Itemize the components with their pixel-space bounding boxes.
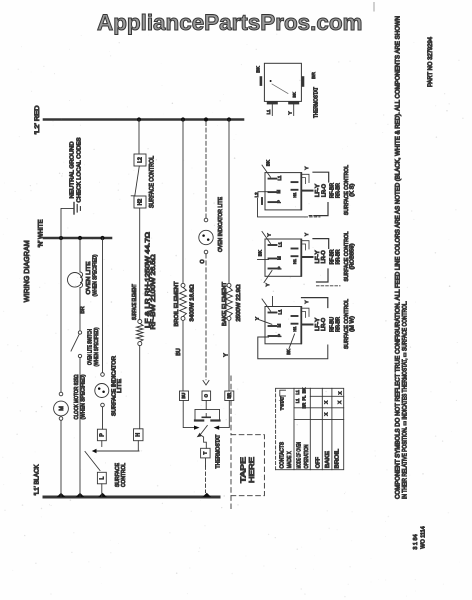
svg-text:NEUTRAL GROUND: NEUTRAL GROUND [69, 142, 75, 199]
svg-text:BROIL ELEMENT: BROIL ELEMENT [174, 281, 180, 327]
svg-text:Y: Y [254, 317, 259, 320]
svg-text:MODE OF OVEN: MODE OF OVEN [296, 442, 302, 469]
svg-text:H1: H1 [292, 326, 297, 332]
svg-text:BU: BU [181, 393, 186, 399]
svg-text:RR-BR: RR-BR [335, 249, 341, 264]
svg-text:M: M [276, 189, 281, 193]
svg-text:Y: Y [267, 233, 272, 236]
svg-text:SURFACE CONTROL: SURFACE CONTROL [149, 155, 155, 208]
svg-text:H1: H1 [292, 192, 297, 198]
svg-text:BK: BK [257, 250, 262, 256]
svg-text:Y: Y [223, 353, 229, 357]
svg-text:L1: L1 [277, 175, 282, 180]
svg-text:LR-O: LR-O [321, 184, 327, 197]
svg-text:Y: Y [304, 233, 309, 236]
svg-text:OVEN INDICATOR LITE: OVEN INDICATOR LITE [218, 197, 224, 252]
svg-text:BR: BR [80, 306, 86, 313]
svg-text:Y: Y [288, 111, 293, 114]
svg-text:BK: BK [292, 92, 297, 98]
svg-text:MADE X: MADE X [287, 451, 293, 468]
svg-text:T: T [203, 452, 208, 455]
svg-text:L1: L1 [295, 398, 300, 403]
svg-text:BR: BR [301, 403, 306, 409]
svg-text:LITE: LITE [117, 379, 123, 393]
svg-text:‘N’ WHITE: ‘N’ WHITE [38, 220, 44, 248]
svg-text:BAKE ELEMENT: BAKE ELEMENT [222, 281, 228, 326]
svg-text:(M W): (M W) [350, 316, 356, 332]
svg-text:RR-BR: RR-BR [335, 183, 341, 198]
svg-text:L: L [99, 476, 105, 479]
svg-text:OVEN LITE: OVEN LITE [86, 261, 92, 294]
svg-text:BK: BK [286, 349, 291, 355]
svg-text:WO 1114: WO 1114 [420, 526, 426, 548]
svg-text:M: M [59, 406, 65, 411]
svg-text:Y: Y [265, 283, 270, 286]
svg-text:COMPONENT SYMBOLS DO NOT REFLE: COMPONENT SYMBOLS DO NOT REFLECT TRUE CO… [395, 16, 401, 499]
svg-text:OPERATION: OPERATION [304, 445, 310, 469]
svg-text:Y: Y [304, 300, 309, 303]
svg-text:RF-BW 2100W 26.5Ω: RF-BW 2100W 26.5Ω [151, 254, 157, 330]
svg-text:LF-Y: LF-Y [315, 183, 321, 197]
svg-text:H: H [136, 433, 142, 437]
svg-text:(ROB859): (ROB859) [350, 243, 356, 269]
svg-text:CONTROL: CONTROL [121, 463, 127, 487]
svg-text:RR-BR: RR-BR [335, 317, 341, 332]
svg-text:CLOCK MOTOR 825Ω: CLOCK MOTOR 825Ω [74, 375, 80, 420]
svg-text:CONTACTS: CONTACTS [280, 442, 286, 469]
svg-text:3400W 16.6Ω: 3400W 16.6Ω [189, 285, 195, 322]
svg-text:LF-Y: LF-Y [315, 317, 321, 331]
svg-text:IN THEIR RELATIVE POSITION. ▭: IN THEIR RELATIVE POSITION. ▭ INDICATES … [402, 301, 408, 499]
svg-text:L2: L2 [137, 157, 143, 163]
svg-text:X: X [323, 401, 328, 404]
svg-text:‘L1’ BLACK: ‘L1’ BLACK [34, 465, 40, 496]
svg-text:PL: PL [301, 395, 306, 401]
svg-text:O: O [200, 259, 206, 263]
svg-text:THERMOSTAT: THERMOSTAT [216, 434, 222, 468]
svg-text:TAPE: TAPE [240, 457, 247, 483]
svg-text:X: X [337, 401, 342, 404]
svg-text:LR-O: LR-O [321, 318, 327, 331]
svg-text:BR: BR [311, 72, 317, 79]
svg-text:L1: L1 [295, 389, 300, 394]
svg-text:LF-Y: LF-Y [315, 250, 321, 264]
svg-text:2500W 22.9Ω: 2500W 22.9Ω [236, 285, 242, 322]
svg-text:AppliancePartsPros.com: AppliancePartsPros.com [97, 10, 363, 35]
svg-text:BU: BU [176, 348, 182, 355]
svg-text:THERMOSTAT: THERMOSTAT [314, 87, 320, 118]
svg-text:M: M [276, 256, 281, 260]
svg-text:L1: L1 [266, 109, 271, 114]
svg-text:(K S): (K S) [350, 183, 356, 196]
svg-text:L1: L1 [277, 309, 282, 314]
svg-text:PART NO 3279294: PART NO 3279294 [428, 36, 434, 87]
svg-text:(WHEN SPECIFIED): (WHEN SPECIFIED) [92, 254, 98, 296]
svg-text:OVEN LITE SWITCH: OVEN LITE SWITCH [87, 329, 93, 365]
svg-text:LR-O: LR-O [321, 250, 327, 263]
svg-text:X: X [337, 391, 342, 394]
svg-text:SURFACE ELEMENT: SURFACE ELEMENT [132, 284, 138, 320]
svg-text:WIRING DIAGRAM: WIRING DIAGRAM [22, 240, 31, 302]
svg-text:P: P [277, 266, 282, 269]
svg-text:P: P [277, 334, 282, 337]
svg-text:L2: L2 [254, 192, 259, 198]
svg-text:T’STAT: T’STAT [280, 396, 285, 410]
svg-text:BK: BK [301, 388, 306, 394]
svg-text:P: P [277, 200, 282, 203]
svg-text:L1: L1 [277, 242, 282, 247]
svg-text:‘L2’ RED: ‘L2’ RED [35, 105, 41, 135]
svg-text:BK: BK [265, 160, 270, 166]
svg-text:Y: Y [304, 167, 309, 170]
svg-text:X: X [323, 413, 328, 416]
svg-text:OFF: OFF [315, 457, 321, 469]
svg-text:M: M [276, 323, 281, 327]
svg-text:H1: H1 [292, 258, 297, 264]
svg-text:3 1 84: 3 1 84 [413, 534, 419, 549]
svg-text:(WHEN SPECIFIED): (WHEN SPECIFIED) [94, 327, 100, 366]
svg-text:(WHEN SPECIFIED): (WHEN SPECIFIED) [80, 374, 86, 419]
svg-text:H2: H2 [137, 199, 143, 206]
svg-text:CHECK LOCAL CODES: CHECK LOCAL CODES [76, 137, 82, 202]
svg-text:BROIL: BROIL [335, 449, 341, 469]
svg-text:HERE: HERE [249, 457, 256, 483]
svg-text:BAKE: BAKE [325, 451, 331, 468]
